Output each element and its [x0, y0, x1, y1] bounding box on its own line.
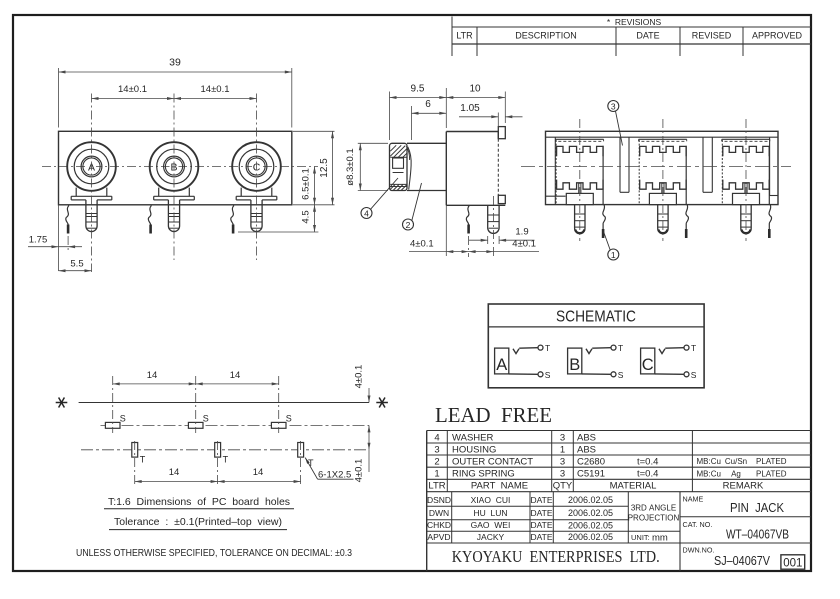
- schematic box: [488, 304, 704, 388]
- svg-text:3: 3: [611, 101, 616, 111]
- rear view cell C upper comb contact: [723, 146, 769, 156]
- rear view partition wall A-B: [620, 137, 629, 192]
- revisions table: [452, 17, 811, 57]
- svg-text:PLATED: PLATED: [756, 469, 787, 478]
- pcb 6-1X2.5 label: [305, 458, 353, 481]
- svg-text:T: T: [618, 343, 623, 353]
- pcb S hole 1: [105, 414, 125, 429]
- svg-text:PLATED: PLATED: [756, 457, 787, 466]
- svg-text:1.9: 1.9: [515, 227, 528, 238]
- svg-text:PART NAME: PART NAME: [471, 481, 528, 492]
- svg-text:t=0.4: t=0.4: [637, 469, 658, 480]
- dimension 1.75 (edge to spring leg): [28, 205, 82, 271]
- svg-text:QTY: QTY: [553, 481, 573, 492]
- svg-text:NAME: NAME: [683, 494, 704, 503]
- svg-text:CAT. NO.: CAT. NO.: [683, 520, 713, 529]
- dimension 10 (body depth): [446, 83, 505, 123]
- svg-text:DWN: DWN: [429, 508, 449, 518]
- svg-text:WT–04067VB: WT–04067VB: [726, 527, 789, 541]
- svg-text:DESCRIPTION: DESCRIPTION: [515, 31, 577, 41]
- callout 2 (outer contact): [403, 183, 422, 230]
- svg-text:SCHEMATIC: SCHEMATIC: [556, 309, 636, 326]
- schematic switch A: [495, 343, 551, 380]
- rear view cell B pin: [658, 205, 668, 234]
- svg-text:C5191: C5191: [577, 469, 605, 480]
- rear view cell C base block: [733, 193, 760, 204]
- dimension 4&#177;0.1 left (body edge to leg): [409, 205, 539, 256]
- svg-text:MATERIAL: MATERIAL: [610, 481, 657, 492]
- rear view cell A pin: [575, 205, 585, 234]
- svg-text:14±0.1: 14±0.1: [201, 84, 230, 95]
- rear view horizontal centerline: [521, 166, 791, 168]
- svg-text:T: T: [308, 458, 314, 468]
- svg-text:12.5: 12.5: [319, 158, 330, 178]
- svg-text:OUTER CONTACT: OUTER CONTACT: [452, 457, 533, 468]
- svg-text:PIN JACK: PIN JACK: [730, 501, 785, 515]
- pcb dimension 4&#177;0.1 upper: [354, 365, 371, 450]
- svg-text:2006.02.05: 2006.02.05: [568, 508, 613, 518]
- svg-text:APPROVED: APPROVED: [752, 31, 803, 41]
- rear view cell A contact bracket: [556, 139, 604, 141]
- rear view cell A spring leg: [603, 205, 606, 238]
- svg-text:MB:Cu: MB:Cu: [697, 469, 721, 478]
- dimension 4&#177;0.1 right (leg to pin): [469, 239, 536, 253]
- svg-text:SJ–04067V: SJ–04067V: [714, 554, 771, 568]
- svg-text:REMARK: REMARK: [723, 481, 764, 492]
- callout 1 (ring spring): [604, 232, 619, 261]
- svg-text:4±0.1: 4±0.1: [354, 459, 365, 483]
- svg-text:C2680: C2680: [577, 457, 605, 468]
- front view jack C: [232, 142, 281, 231]
- svg-text:T:1.6 Dimensions of PC boa: T:1.6 Dimensions of PC board holes: [108, 496, 290, 508]
- schematic switch C: [641, 343, 697, 380]
- svg-text:39: 39: [169, 57, 181, 69]
- rear view cell A upper comb contact: [557, 146, 603, 156]
- rear view cell A side walls: [556, 140, 603, 205]
- svg-text:LEAD FREE: LEAD FREE: [435, 403, 552, 427]
- pcb T hole 3: [298, 443, 314, 469]
- side view spring leg: [466, 205, 469, 233]
- svg-text:MB:Cu: MB:Cu: [697, 457, 721, 466]
- pcb dimension 14 bottom pair: [135, 441, 301, 486]
- callout 4 (washer): [361, 178, 398, 219]
- svg-text:XIAO CUI: XIAO CUI: [471, 495, 511, 505]
- rear view cell C side walls: [722, 140, 769, 205]
- svg-text:S: S: [618, 370, 624, 380]
- front view: jack body housing: [59, 131, 292, 205]
- pcb dimension 14 top pair: [113, 370, 279, 433]
- svg-text:4±0.1: 4±0.1: [354, 365, 365, 389]
- svg-text:DATE: DATE: [530, 508, 552, 518]
- rear view cell C spring leg: [769, 205, 772, 238]
- svg-text:14±0.1: 14±0.1: [118, 84, 147, 95]
- rear view cell B upper comb contact: [640, 146, 686, 156]
- rear view cell B spring leg: [686, 205, 689, 238]
- svg-text:DATE: DATE: [530, 495, 552, 505]
- svg-text:4: 4: [434, 432, 439, 443]
- front view jack B spring leg: [148, 206, 151, 234]
- pcb S-hole centerline: [101, 424, 370, 426]
- LEAD FREE heading: [435, 403, 552, 427]
- side view center pin: [488, 205, 499, 233]
- svg-text:APVD: APVD: [427, 532, 450, 542]
- company name: [452, 547, 660, 566]
- svg-text:1: 1: [611, 250, 616, 260]
- svg-text:LTR: LTR: [456, 31, 473, 41]
- pcb T hole 2: [215, 443, 229, 465]
- front view jack B: [150, 142, 199, 231]
- title block staff grid: [427, 492, 811, 571]
- svg-text:2: 2: [406, 220, 411, 230]
- dimension 39 (front overall width): [59, 57, 292, 128]
- pcb reference line with asterisks: [56, 398, 388, 408]
- svg-text:A: A: [496, 356, 507, 374]
- svg-text:Tolerance : ±0.1(Printed–top: Tolerance : ±0.1(Printed–top view): [114, 516, 282, 528]
- svg-text:14: 14: [253, 467, 264, 478]
- svg-text:GAO WEI: GAO WEI: [471, 520, 511, 530]
- svg-text:DWN.NO.: DWN.NO.: [683, 545, 715, 554]
- svg-text:DATE: DATE: [530, 520, 552, 530]
- svg-text:3: 3: [560, 432, 565, 443]
- svg-text:S: S: [545, 370, 551, 380]
- svg-text:UNIT:: UNIT:: [631, 533, 650, 542]
- svg-text:S: S: [203, 414, 209, 424]
- svg-text:4: 4: [364, 208, 369, 218]
- parts table grid: [427, 431, 811, 572]
- rear view housing outline (item 3): [546, 131, 779, 204]
- front view horizontal centerline: [42, 166, 318, 168]
- rear view cell A centerline: [579, 119, 581, 241]
- svg-text:3: 3: [560, 469, 565, 480]
- svg-text:1: 1: [560, 444, 565, 455]
- callout 3 (housing): [608, 101, 623, 146]
- front view jack A spring leg: [66, 206, 69, 234]
- rear view cell B side walls: [639, 140, 686, 205]
- dimension 14&#177;0.1 B-C: [174, 84, 257, 100]
- pcb T-hole centerline: [81, 449, 369, 451]
- svg-text:DATE: DATE: [636, 31, 659, 41]
- svg-text:2006.02.05: 2006.02.05: [568, 521, 613, 531]
- svg-text:9.5: 9.5: [411, 83, 425, 94]
- note: unless otherwise specified: [76, 547, 352, 559]
- svg-text:2006.02.05: 2006.02.05: [568, 495, 613, 505]
- svg-text:T: T: [545, 343, 550, 353]
- svg-text:4±0.1: 4±0.1: [410, 239, 434, 250]
- name cell: PIN JACK: [683, 494, 785, 515]
- dimension 4.5 (body bottom to pin tip): [238, 205, 318, 232]
- svg-text:t=0.4: t=0.4: [637, 457, 658, 468]
- svg-text:14: 14: [147, 370, 158, 381]
- svg-text:3RD ANGLE: 3RD ANGLE: [631, 504, 676, 513]
- svg-text:JACKY: JACKY: [477, 532, 505, 542]
- rear view cell A lower comb contact: [557, 180, 603, 194]
- cat no cell: WT-04067VB: [683, 520, 790, 541]
- svg-text:S: S: [691, 370, 697, 380]
- svg-text:RING SPRING: RING SPRING: [452, 469, 515, 480]
- svg-text:S: S: [120, 414, 126, 424]
- svg-text:2: 2: [434, 457, 439, 468]
- rear view cell C lower comb contact: [723, 180, 769, 194]
- svg-text:4.5: 4.5: [301, 210, 312, 223]
- note: tolerance printed-top view: [109, 516, 287, 530]
- svg-text:Ag: Ag: [731, 469, 741, 478]
- svg-text:LTR: LTR: [428, 481, 445, 492]
- rear view partition wall B-C: [703, 137, 712, 192]
- side view washer ring (item 4): [390, 143, 408, 190]
- parts table rows text: [428, 432, 786, 491]
- svg-text:3: 3: [434, 444, 439, 455]
- dimension 9.5 (ring to body): [390, 83, 447, 140]
- pcb T hole 1: [132, 443, 146, 465]
- pcb S hole 3: [271, 414, 291, 429]
- pcb S hole 2: [188, 414, 208, 429]
- svg-text:T: T: [223, 455, 229, 465]
- side view housing body (item 2): [446, 127, 505, 206]
- svg-text:3: 3: [560, 457, 565, 468]
- svg-text:ABS: ABS: [577, 444, 596, 455]
- rear view cell C centerline: [745, 119, 747, 241]
- dimension &#248;8.3&#177;0.1 (ring diameter): [345, 143, 388, 190]
- front view jack centerlines: [92, 94, 257, 273]
- dimension 12.5 (front height): [293, 131, 335, 205]
- rear view cell C pin: [741, 205, 751, 234]
- svg-text:PROJECTION: PROJECTION: [628, 514, 680, 523]
- front view jack A: [67, 142, 116, 231]
- note: T:1.6 dimensions of PC board holes: [104, 496, 294, 509]
- rear view cell B centerline: [662, 119, 664, 241]
- svg-text:DSND: DSND: [427, 495, 451, 505]
- svg-text:1.05: 1.05: [460, 103, 480, 114]
- svg-text:001: 001: [783, 557, 802, 569]
- svg-text:6-1X2.5: 6-1X2.5: [318, 469, 351, 480]
- svg-text:6.5±0.1: 6.5±0.1: [301, 168, 312, 200]
- svg-text:DATE: DATE: [530, 532, 552, 542]
- side view bushing outline: [406, 143, 446, 190]
- dwn no cell: SJ-04067V: [683, 545, 805, 569]
- svg-text:UNLESS OTHERWISE SPECIFIED, TO: UNLESS OTHERWISE SPECIFIED, TOLERANCE ON…: [76, 547, 352, 559]
- dimension 6: [412, 99, 447, 140]
- svg-text:HOUSING: HOUSING: [452, 444, 496, 455]
- svg-text:1.75: 1.75: [29, 234, 48, 245]
- svg-text:14: 14: [230, 370, 241, 381]
- staff rows text: [427, 495, 680, 544]
- svg-text:B: B: [569, 356, 580, 374]
- svg-text:ABS: ABS: [577, 432, 596, 443]
- svg-text:T: T: [691, 343, 696, 353]
- rear view cell C contact bracket: [722, 139, 770, 141]
- svg-text:10: 10: [469, 83, 481, 94]
- svg-text:C: C: [642, 356, 654, 374]
- svg-text:S: S: [286, 414, 292, 424]
- svg-text:T: T: [140, 455, 146, 465]
- svg-text:* REVISIONS: * REVISIONS: [607, 17, 662, 27]
- side view leg centerlines: [469, 196, 494, 257]
- svg-text:Cu/Sn: Cu/Sn: [725, 457, 747, 466]
- svg-text:1: 1: [434, 469, 439, 480]
- pcb dimension 4&#177;0.1 lower: [354, 450, 370, 483]
- svg-text:ø8.3±0.1: ø8.3±0.1: [345, 148, 356, 185]
- svg-text:2006.02.05: 2006.02.05: [568, 532, 613, 542]
- dimension 5.5 (edge to pin A center): [59, 258, 92, 272]
- svg-text:mm: mm: [652, 532, 668, 543]
- svg-text:CHKD: CHKD: [427, 520, 451, 530]
- dimension 14&#177;0.1 A-B: [92, 84, 175, 100]
- svg-text:6: 6: [425, 99, 431, 110]
- schematic switch B: [568, 343, 624, 380]
- front view jack C spring leg: [231, 206, 234, 234]
- svg-text:14: 14: [169, 467, 180, 478]
- svg-text:5.5: 5.5: [70, 258, 83, 269]
- dimension 1.05 (tab): [459, 103, 523, 127]
- svg-text:KYOYAKU ENTERPRISES LTD.: KYOYAKU ENTERPRISES LTD.: [452, 547, 660, 566]
- dimension 6.5&#177;0.1 (center to bottom): [301, 167, 317, 205]
- svg-text:WASHER: WASHER: [452, 432, 493, 443]
- rear view cell A base block: [566, 193, 593, 204]
- rear view cell B lower comb contact: [640, 180, 686, 194]
- rear view cell B base block: [649, 193, 676, 204]
- dimension 1.9 (pin width): [469, 227, 535, 245]
- rear view cell B contact bracket: [639, 139, 687, 141]
- svg-text:HU LUN: HU LUN: [473, 508, 507, 518]
- svg-text:REVISED: REVISED: [692, 31, 732, 41]
